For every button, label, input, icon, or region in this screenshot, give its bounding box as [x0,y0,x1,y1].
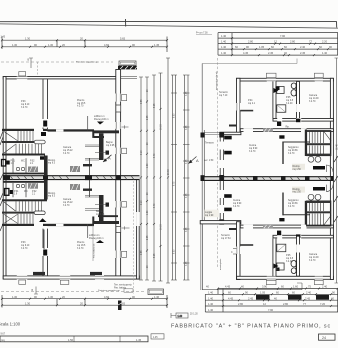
svg-text:2.80: 2.80 [238,302,244,306]
bath text lower [286,255,294,263]
washbasin upper [277,87,284,94]
bagno-corridor wall stub upper [83,164,92,166]
right bottom dimension block [205,288,338,313]
shower lower [277,244,286,252]
svg-text:h 2.70: h 2.70 [77,106,84,108]
svg-text:P.05: P.05 [286,255,291,257]
room text pranzo lower [77,241,86,250]
svg-text:Camera: Camera [309,253,318,256]
svg-text:Soggiorno: Soggiorno [288,146,299,149]
svg-text:mq 15.22: mq 15.22 [63,202,73,204]
dashed tie [37,62,39,76]
svg-text:mq 17.64: mq 17.64 [221,238,231,240]
svg-text:h 2.70: h 2.70 [21,248,28,250]
stair west wall lower [305,201,307,227]
sheet tick [125,19,127,27]
svg-text:Terrazzo: Terrazzo [221,234,231,237]
rotated ruler numbers left plan [141,89,170,268]
right lower wall [137,177,140,279]
svg-text:h 2.70: h 2.70 [233,206,240,208]
right edge ruler line [335,58,338,283]
svg-text:20.60: 20.60 [168,169,170,175]
svg-text:10.15: 10.15 [161,124,163,130]
door leaf kitchen lower [279,218,284,221]
rotated numbers right rulers [174,91,189,266]
svg-text:mq 14.00: mq 14.00 [309,257,319,259]
svg-text:A: A [108,156,111,161]
svg-text:4.70: 4.70 [154,153,156,158]
svg-text:3.45: 3.45 [186,261,188,266]
svg-text:1.40: 1.40 [208,296,214,300]
inner dim line with rotated text lower [92,225,94,261]
door hatch corridor lower [70,184,80,190]
terrace stub upper [229,125,236,127]
stair upper block [307,131,331,156]
svg-text:sez. 1:50: sez. 1:50 [204,160,214,162]
svg-text:h 2.70: h 2.70 [309,260,316,262]
svg-text:1.60: 1.60 [293,285,299,289]
lower strip texts [14,191,56,198]
svg-text:FABBRICATO "A" + "B" PIANTA PI: FABBRICATO "A" + "B" PIANTA PIANO PRIMO,… [171,324,331,330]
stair west wall upper [305,130,307,157]
dispensa west wall lower [87,224,89,238]
radiator bottom 2 [90,272,102,275]
stair bottom band lower / hwall left [2,224,34,226]
svg-text:mq 6.3: mq 6.3 [48,196,56,198]
svg-text:3.35: 3.35 [186,159,188,164]
svg-text:Proiezione soggetto sup.: Proiezione soggetto sup. [98,289,120,292]
svg-text:mq 20.66: mq 20.66 [288,203,298,205]
svg-text:6.75: 6.75 [174,181,176,186]
tick cross right of wall lower [122,226,130,229]
svg-text:h 2.70: h 2.70 [63,205,70,207]
section marker A left [103,155,112,162]
door arrow lower [39,218,47,222]
svg-text:1.45: 1.45 [153,337,158,339]
hall wall south [240,129,333,132]
svg-text:soffitto t.m: soffitto t.m [94,115,105,118]
svg-text:h 2.40: h 2.40 [286,261,293,263]
svg-text:h 2.70: h 2.70 [249,151,256,153]
room text P.08 lower [21,242,30,250]
terrazzo text upper [219,91,229,97]
washbasin lower [277,263,284,270]
svg-text:2.35: 2.35 [147,235,149,240]
svg-text:mq: mq [1,339,5,342]
svg-text:mq 9.90: mq 9.90 [233,203,242,205]
svg-text:mq 15.22: mq 15.22 [63,150,73,152]
svg-text:5.65: 5.65 [120,36,126,40]
svg-text:6.90: 6.90 [174,113,176,118]
svg-text:2.45: 2.45 [268,51,274,55]
door hatch corridor upper [70,166,80,172]
bagno text lower [96,211,105,216]
svg-text:2.80: 2.80 [248,40,254,44]
svg-text:mq 4.95: mq 4.95 [106,145,115,147]
svg-text:5.05: 5.05 [154,103,156,108]
right edge hatch ticks [334,156,338,222]
door arc lower [327,185,334,192]
svg-text:Cucina: Cucina [249,145,257,147]
left plan right vertical rulers [139,58,170,283]
wc circles above stair lower [308,194,321,200]
room text lower left [233,200,242,208]
svg-text:Camera: Camera [309,94,318,97]
bagno closet wall upper [99,133,104,160]
bathroom lower walls [273,238,276,276]
interior hwall upper mid [48,129,95,131]
corridor east wall lower [89,180,91,197]
small box bottom right [319,334,336,340]
interior wall v1 lower [43,229,48,276]
door arrow upper [41,132,46,136]
svg-text:Cucina: Cucina [233,200,241,202]
bath door leaf lower [276,268,280,272]
right main wall [116,70,121,277]
svg-text:Bagno: Bagno [96,211,103,213]
svg-text:1.30: 1.30 [12,43,18,47]
svg-text:h 2.70: h 2.70 [288,206,295,208]
svg-text:9.67: 9.67 [1,334,6,336]
svg-text:Loggia: Loggia [205,212,213,214]
lower strip fixtures [16,184,24,187]
interior wall v1 upper [43,79,48,129]
svg-text:mq 4.95: mq 4.95 [96,214,105,216]
bagno text upper [106,142,115,147]
left top dimension ruler [1,37,168,53]
bottom wall left plan [3,276,139,279]
svg-text:1.40: 1.40 [208,302,214,306]
tick cross right of wall upper [122,125,129,128]
svg-text:3.35: 3.35 [186,193,188,198]
terrace left thin line lower [201,224,203,290]
upper strip door symbols [2,160,6,167]
passage dashed line [217,58,219,268]
hwall lower right [94,221,119,224]
soggiorno text lower [288,199,299,208]
room text camera lower [63,198,73,207]
bagno-corridor wall stub lower [83,189,92,191]
soffitto text lower [89,234,104,240]
left bottom dimension ruler [1,295,168,308]
bracket left of title [171,313,188,318]
camera text lower [309,253,319,262]
cucina text upper [249,145,258,153]
dispensa label text upper [94,115,109,121]
interior hwall upper right [94,130,119,133]
interior hwall upper left [2,129,34,131]
svg-text:4.45: 4.45 [225,285,231,289]
bottom wall third opening [95,275,104,280]
right plan right wall [330,78,333,279]
svg-text:mq 3.8: mq 3.8 [286,100,294,102]
left edge ruler hatch [0,131,3,231]
svg-text:mq 1.50: mq 1.50 [293,192,302,194]
door leaf kitchen [279,135,284,138]
svg-text:Disimp.: Disimp. [293,189,301,191]
upper strip fixtures [16,167,24,170]
strip divider walls upper [13,158,26,172]
svg-text:3.10: 3.10 [141,150,143,155]
svg-text:Proiezione soggetto sup.: Proiezione soggetto sup. [76,61,98,64]
right plan bottom wall [237,276,334,279]
svg-text:1.40: 1.40 [221,40,227,44]
svg-text:20 1.20: 20 1.20 [190,314,198,316]
svg-text:2.20: 2.20 [322,40,328,44]
section marker A right [189,157,200,164]
hwall y133 [220,132,241,135]
door leaf v1 upper [43,121,47,127]
stair arrow black upper [40,156,47,159]
svg-text:1.60: 1.60 [147,163,149,168]
svg-text:1.40: 1.40 [154,295,160,299]
bagno wc lower [106,203,110,207]
svg-text:Terrazzo: Terrazzo [205,142,215,145]
svg-text:4.60: 4.60 [104,43,110,47]
svg-text:Scala 1:100: Scala 1:100 [0,322,21,327]
small vertical bar bottom [118,301,122,311]
svg-text:2.45: 2.45 [305,296,311,300]
svg-text:2.40: 2.40 [322,285,328,289]
balcony hatched bar [118,66,137,70]
bagno closet wall lower [99,195,104,222]
svg-text:1.40: 1.40 [322,51,328,55]
svg-text:Terr. semicoperto: Terr. semicoperto [114,284,132,287]
svg-text:mq 1.90: mq 1.90 [205,215,214,217]
soggiorno west wall [282,142,284,165]
left plan: projection dashed line [1,61,113,63]
soggiorno south wall lower [283,214,310,216]
terrace stub lower [229,228,236,230]
svg-text:3.45: 3.45 [186,91,188,96]
svg-text:1.40: 1.40 [221,34,227,38]
bagno wc upper [106,151,110,155]
soggiorno north wall [283,141,310,143]
right plan top wall [237,78,334,81]
svg-text:1.40: 1.40 [208,290,214,294]
svg-text:2.80: 2.80 [283,302,289,306]
svg-text:10.15: 10.15 [161,224,163,230]
soggiorno text upper [288,146,299,155]
strip divider walls lower [13,183,26,197]
svg-text:mq 2.1: mq 2.1 [248,103,256,105]
right top ruler numbers [221,34,332,55]
svg-text:5.05: 5.05 [154,253,156,258]
door bar lower [313,187,325,191]
disimp text lower [292,187,305,194]
svg-text:1.40: 1.40 [221,45,227,49]
svg-text:WC: WC [21,161,25,163]
bottom scale bar [0,334,164,342]
top wall window opening [17,72,27,80]
bath text upper [286,97,294,105]
svg-text:3.10: 3.10 [141,200,143,205]
loggia text [204,210,219,218]
svg-text:Pav.leg.100 m: Pav.leg.100 m [94,119,109,121]
svg-text:3.55: 3.55 [141,250,143,255]
door bar upper [313,166,325,170]
bathroom upper right wall [297,81,300,120]
stair top band lower [2,199,47,201]
svg-text:mq 18.5: mq 18.5 [77,245,86,247]
svg-text:Pav. battuto cm: Pav. battuto cm [92,243,95,258]
svg-text:2.40: 2.40 [300,45,306,49]
corridor south wall lower [273,235,333,238]
stairs upper flight1 [4,131,45,154]
svg-text:1.45: 1.45 [1,37,6,39]
marker B top [28,58,34,68]
svg-text:Disimp.: Disimp. [293,166,301,168]
top wall thin extension [119,77,138,79]
lower strip top wall [3,181,45,183]
svg-text:passaggio pedonale: passaggio pedonale [216,71,218,90]
svg-text:h 2.40: h 2.40 [286,103,293,105]
terrace top line [202,59,297,64]
mid-left wall double [220,138,223,220]
svg-text:2.80: 2.80 [290,40,296,44]
bottom balcony box [148,289,164,295]
right wall window openings [115,94,126,102]
svg-text:1.05: 1.05 [260,290,266,294]
stair mid band lower [2,212,34,214]
svg-text:1.40: 1.40 [208,308,214,312]
svg-text:7.90: 7.90 [268,308,274,312]
svg-text:1.30: 1.30 [25,301,31,305]
svg-text:h 2.70: h 2.70 [77,248,84,250]
right top ruler symbol [196,33,212,35]
svg-text:1.30: 1.30 [48,295,54,299]
door arc upper [327,165,334,172]
svg-text:1.30: 1.30 [25,36,31,40]
svg-text:h 2.70: h 2.70 [21,107,28,109]
svg-text:h 2.70: h 2.70 [309,101,316,103]
upper strip texts [11,160,57,165]
stairs lower [4,201,45,224]
svg-text:1.45: 1.45 [136,338,142,342]
corridor north wall [273,119,333,122]
svg-text:2.40: 2.40 [306,290,312,294]
svg-text:F= cm 7.00: F= cm 7.00 [196,33,208,35]
svg-text:1.60: 1.60 [147,210,149,215]
svg-text:Rip.: Rip. [286,127,290,129]
svg-text:24: 24 [322,336,326,340]
terrace pillars [201,133,205,138]
svg-text:7.90: 7.90 [280,34,286,38]
right plan left rulers [171,75,190,280]
camera text upper right [309,94,319,103]
stair lower block [307,201,331,226]
svg-text:soffitto cm: soffitto cm [89,234,100,237]
in-wall window symbol upper [116,105,121,112]
svg-text:Camera: Camera [63,146,72,149]
svg-text:3.55: 3.55 [141,99,143,104]
C symbol on wall [231,249,236,255]
svg-text:2.45: 2.45 [300,51,306,55]
svg-text:Soggiorno: Soggiorno [288,199,299,202]
radiator bottom 1 [33,272,45,275]
left bottom ruler numbers [12,295,160,305]
vertical pole lower [43,230,45,250]
svg-text:A: A [196,158,199,163]
left plan top wall [3,77,118,79]
right top dimension block [218,33,338,57]
svg-text:mq 18.5: mq 18.5 [77,103,86,105]
svg-text:1.05: 1.05 [259,45,265,49]
svg-text:mq 3.8: mq 3.8 [286,258,294,260]
svg-text:7.20: 7.20 [320,302,326,306]
disimp text upper [292,164,305,171]
in-wall window symbol lower [116,227,121,233]
svg-text:4.60: 4.60 [104,295,110,299]
stub wall lower [240,244,253,246]
loggia wall [200,221,241,224]
svg-text:Camera: Camera [63,198,72,201]
terrace lower outline [202,283,302,290]
svg-text:2.45: 2.45 [248,296,254,300]
wc fixtures lower [291,261,297,274]
upper strip bottom wall [3,173,45,175]
room text pranzo upper [77,99,86,108]
svg-text:1.40: 1.40 [221,51,227,55]
svg-text:3.45: 3.45 [186,125,188,130]
svg-text:4.45: 4.45 [228,296,234,300]
wc fixtures upper [291,83,297,96]
right plan central wall [205,176,334,181]
svg-text:4.45: 4.45 [243,51,249,55]
bathroom upper left wall [273,81,276,118]
terrace boundary vline [202,64,204,291]
wc circles below stair upper [308,156,321,162]
svg-text:mq 7.10: mq 7.10 [219,95,228,97]
shower upper [277,105,286,113]
hall wall north lower [240,225,333,228]
balcony box [119,61,136,66]
dark boxes in right bottom block [256,295,270,300]
svg-text:4.70: 4.70 [154,203,156,208]
terrazzo text lower [221,234,231,240]
svg-text:mq 9.10: mq 9.10 [21,104,30,106]
room text camera upper [63,146,73,155]
svg-text:1.40: 1.40 [178,316,183,318]
stair bottom band upper [2,154,45,156]
svg-text:mq 9.90: mq 9.90 [249,148,258,150]
svg-text:mq 14.00: mq 14.00 [309,98,319,100]
corridor east wall upper [89,158,91,175]
svg-text:P.04: P.04 [248,100,253,102]
door leafs on mid-left wall [224,136,232,140]
svg-text:3.90: 3.90 [262,285,268,289]
terr text below left plan [114,284,132,290]
room text P.08 upper [21,101,30,109]
hwall lower mid [48,224,95,226]
svg-text:2.35: 2.35 [147,115,149,120]
right plan upper-left wall [237,78,241,133]
svg-text:marciapiede: marciapiede [219,258,222,270]
svg-text:h 2.70: h 2.70 [63,153,70,155]
sheet top line 1 [0,21,337,27]
svg-text:1.30: 1.30 [48,43,54,47]
svg-text:mq 9.10: mq 9.10 [21,245,30,247]
svg-text:h 2.70: h 2.70 [288,153,295,155]
lower-left wall [237,222,241,280]
right bottom ruler numbers [206,285,335,313]
lower strip door symbols [5,189,9,196]
svg-text:P.03: P.03 [21,101,26,103]
svg-text:mq 20.66: mq 20.66 [288,150,298,152]
left outer wall [3,77,6,279]
small room text upper [248,100,256,105]
stair mid band upper [2,141,34,143]
